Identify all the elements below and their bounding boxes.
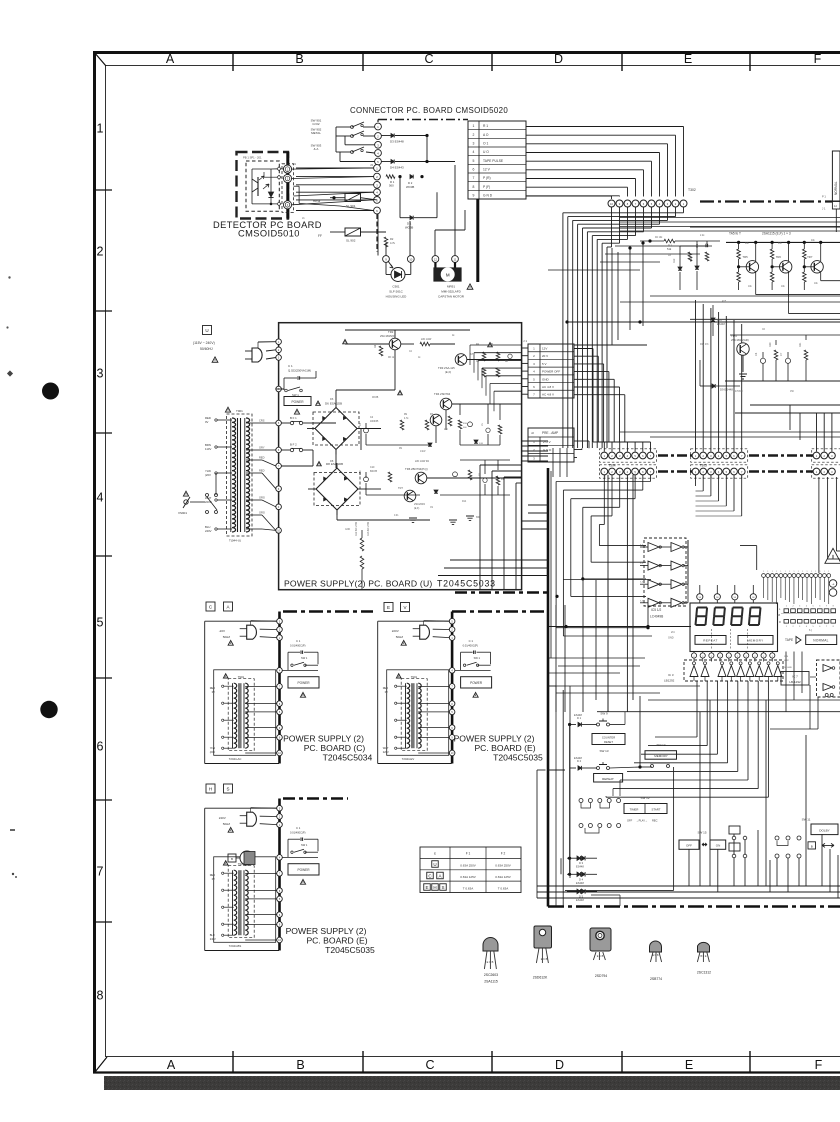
svg-text:REW: REW (313, 199, 320, 203)
svg-text:J2: J2 (531, 431, 534, 435)
svg-text:U: U (433, 862, 436, 867)
svg-text:220V: 220V (383, 750, 389, 754)
svg-text:D8: D8 (330, 459, 334, 463)
svg-text:GND: GND (345, 529, 350, 531)
svg-text:H: H (209, 787, 212, 792)
svg-text:SW 11: SW 11 (802, 818, 811, 822)
svg-text:CRS: CRS (259, 419, 265, 423)
svg-text:D 4: D 4 (579, 877, 584, 881)
svg-text:ES448: ES448 (574, 713, 582, 717)
svg-text:1000/35: 1000/35 (370, 421, 379, 423)
svg-text:A: A (166, 52, 175, 66)
svg-text:CMSOID5010: CMSOID5010 (238, 229, 300, 239)
svg-text:D6: D6 (330, 397, 334, 401)
svg-text:20 V: 20 V (542, 354, 548, 358)
svg-text:DOLBY: DOLBY (819, 829, 830, 833)
svg-text:LB1292: LB1292 (664, 679, 675, 683)
svg-text:RED: RED (383, 686, 389, 690)
svg-text:POWER: POWER (470, 681, 483, 685)
svg-text:REC: REC (652, 819, 658, 823)
svg-text:T2044-BS: T2044-BS (229, 944, 242, 948)
svg-text:C 1: C 1 (296, 826, 301, 830)
svg-text:1: 1 (789, 571, 790, 573)
svg-text:0.63A 250V: 0.63A 250V (460, 864, 476, 868)
svg-text:SW 12: SW 12 (640, 796, 649, 800)
svg-text:4.7k: 4.7k (390, 241, 396, 245)
svg-text:G N D: G N D (543, 448, 552, 452)
svg-text:T2044-EV: T2044-EV (402, 757, 415, 761)
svg-text:1: 1 (824, 571, 825, 573)
svg-text:CONNECTOR PC. BOARD CMSOID50: CONNECTOR PC. BOARD CMSOID5020 (350, 106, 508, 115)
svg-text:P (R): P (R) (483, 176, 491, 180)
svg-text:R21: R21 (799, 342, 802, 347)
svg-text:T 0.63A: T 0.63A (463, 886, 473, 890)
svg-text:& A: & A (314, 147, 319, 151)
svg-text:REPEAT: REPEAT (703, 639, 718, 643)
svg-text:START: START (652, 808, 661, 812)
svg-text:1: 1 (811, 571, 812, 573)
svg-text:B C E: B C E (701, 956, 707, 958)
svg-text:1: 1 (820, 571, 821, 573)
svg-text:E C B: E C B (653, 955, 659, 957)
svg-text:0V: 0V (212, 690, 215, 694)
svg-text:0V: 0V (212, 877, 215, 881)
svg-text:6: 6 (97, 740, 104, 754)
svg-text:S: S (441, 885, 444, 890)
svg-text:OFF: OFF (627, 819, 633, 823)
svg-text:D 5: D 5 (579, 894, 584, 898)
svg-text:T2045C5035: T2045C5035 (493, 753, 543, 763)
svg-text:TR5: TR5 (742, 255, 748, 259)
svg-text:0.63A 125V: 0.63A 125V (495, 875, 511, 879)
svg-text:T901: T901 (236, 409, 243, 413)
svg-text:0.01/400C(P): 0.01/400C(P) (290, 644, 306, 648)
svg-text:220 1/2W: 220 1/2W (421, 338, 432, 341)
svg-text:B: B (811, 844, 813, 848)
svg-text:12: 12 (434, 258, 438, 262)
svg-text:9: 9 (473, 194, 475, 198)
svg-text:T302: T302 (688, 188, 696, 192)
svg-text:TA5 fe T: TA5 fe T (729, 232, 741, 236)
svg-text:IC5 1/2: IC5 1/2 (651, 608, 662, 612)
svg-text:IC 7: IC 7 (792, 675, 798, 679)
svg-text:R6 1k: R6 1k (388, 357, 395, 359)
svg-text:PC. BOARD (E): PC. BOARD (E) (474, 743, 535, 753)
svg-text:F: F (814, 52, 822, 66)
svg-text:7: 7 (97, 865, 104, 879)
svg-text:0.63A 125V: 0.63A 125V (460, 875, 476, 879)
svg-text:E C B: E C B (487, 960, 494, 964)
svg-text:Q.022(250VAC(M): Q.022(250VAC(M) (288, 369, 311, 373)
svg-text:V: V (403, 605, 406, 610)
svg-text:→PLAY→: →PLAY→ (636, 819, 648, 823)
svg-text:METAL: METAL (311, 131, 321, 135)
svg-text:D6: D6 (325, 402, 329, 406)
svg-text:O 1: O 1 (483, 142, 488, 146)
svg-text:R2 10k: R2 10k (655, 237, 663, 239)
svg-text:1: 1 (807, 571, 808, 573)
svg-text:A7: A7 (470, 352, 474, 356)
svg-text:WO3B: WO3B (406, 185, 414, 189)
svg-text:SW 15: SW 15 (697, 831, 706, 835)
svg-text:51k: 51k (667, 247, 672, 251)
svg-text:VS901: VS901 (178, 511, 187, 515)
svg-text:1: 1 (793, 571, 794, 573)
svg-text:MEMORY: MEMORY (654, 754, 667, 758)
svg-text:A: A (438, 874, 441, 879)
svg-text:SLF-261C: SLF-261C (389, 290, 404, 294)
svg-text:(115V ~ 240V): (115V ~ 240V) (193, 341, 215, 345)
svg-text:C10: C10 (359, 470, 362, 475)
svg-text:560: 560 (389, 184, 394, 188)
svg-text:R2: R2 (390, 237, 394, 241)
svg-text:ES448: ES448 (576, 881, 584, 885)
svg-text:RED: RED (210, 873, 216, 877)
svg-text:B: B (296, 1058, 304, 1072)
svg-text:6: 6 (473, 168, 475, 172)
svg-text:OFF: OFF (686, 844, 692, 848)
svg-text:AC 4.8 V: AC 4.8 V (542, 385, 554, 389)
svg-text:50HZ: 50HZ (396, 635, 404, 639)
svg-text:S: S (226, 787, 229, 792)
svg-text:REPEAT: REPEAT (602, 777, 614, 781)
svg-text:50HZ: 50HZ (223, 635, 231, 639)
svg-text:D4 ES443: D4 ES443 (390, 166, 404, 170)
svg-text:ORG: ORG (259, 496, 265, 500)
svg-text:4: 4 (473, 150, 475, 154)
svg-text:800/35: 800/35 (370, 471, 378, 473)
svg-text:(E,F): (E,F) (414, 507, 420, 510)
svg-text:TR7: TR7 (807, 255, 813, 259)
svg-text:J 1: J 1 (523, 339, 527, 343)
svg-text:5 V: 5 V (542, 362, 547, 366)
svg-text:R 1: R 1 (483, 124, 488, 128)
svg-text:POWER: POWER (297, 681, 310, 685)
svg-text:SW 14: SW 14 (656, 743, 665, 747)
svg-text:TR6 2BO794(P.Q): TR6 2BO794(P.Q) (405, 467, 428, 471)
svg-text:TAPE PULSE: TAPE PULSE (483, 159, 504, 163)
svg-text:A: A (167, 1058, 176, 1072)
svg-text:C4: C4 (754, 352, 758, 356)
svg-text:-20V: -20V (219, 629, 225, 633)
svg-text:E: E (434, 852, 436, 856)
svg-text:MMI-552LAFD: MMI-552LAFD (441, 290, 461, 294)
svg-text:FF: FF (318, 234, 322, 238)
svg-text:C10: C10 (370, 466, 375, 469)
svg-text:B: B (295, 52, 303, 66)
svg-text:5: 5 (473, 159, 475, 163)
svg-text:T2044-AC: T2044-AC (229, 757, 242, 761)
svg-text:240V: 240V (205, 529, 212, 533)
svg-text:240V: 240V (210, 937, 216, 941)
svg-text:GND: GND (542, 377, 550, 381)
svg-text:T2045C5035: T2045C5035 (325, 945, 375, 955)
svg-text:MEMORY: MEMORY (747, 639, 763, 643)
svg-text:TR7: TR7 (398, 486, 403, 490)
svg-text:TR4 2SD794: TR4 2SD794 (434, 392, 451, 396)
svg-text:C: C (425, 1058, 434, 1072)
svg-text:+B: +B (777, 614, 780, 617)
svg-text:E: E (685, 1058, 693, 1072)
svg-text:C7: C7 (779, 352, 783, 356)
svg-text:1: 1 (97, 122, 104, 136)
svg-text:NORMAL: NORMAL (813, 639, 828, 643)
svg-text:1: 1 (828, 571, 829, 573)
svg-text:POWER OFF: POWER OFF (542, 370, 560, 374)
svg-text:2/4: 2/4 (671, 631, 675, 634)
svg-text:R17 47k: R17 47k (700, 344, 709, 346)
svg-text:TIMER: TIMER (630, 808, 639, 812)
svg-text:P (F): P (F) (483, 185, 490, 189)
svg-text:R15: R15 (722, 301, 727, 303)
svg-text:2SD794: 2SD794 (595, 974, 607, 978)
svg-text:1: 1 (763, 571, 764, 573)
svg-text:1: 1 (815, 571, 816, 573)
svg-text:110V: 110V (205, 447, 211, 451)
svg-text:D3 ES448: D3 ES448 (390, 140, 404, 144)
svg-text:ORG: ORG (259, 511, 265, 515)
svg-text:1: 1 (798, 571, 799, 573)
svg-text:(20V: (20V (210, 750, 216, 754)
svg-text:T(044-U): T(044-U) (229, 539, 241, 543)
svg-text:SL 901: SL 901 (346, 204, 356, 208)
svg-text:G N D: G N D (483, 194, 493, 198)
svg-text:50HZ: 50HZ (223, 822, 231, 826)
svg-text:12V: 12V (542, 346, 547, 350)
svg-text:M: M (446, 273, 450, 278)
svg-text:F: F (815, 1058, 823, 1072)
svg-text:10 GND: 10 GND (784, 667, 792, 669)
svg-text:POWER: POWER (297, 868, 310, 872)
svg-text:E: E (425, 885, 428, 890)
svg-text:F 2: F 2 (501, 852, 506, 856)
svg-text:0.01/400C(P): 0.01/400C(P) (463, 644, 479, 648)
svg-text:U: U (205, 328, 208, 333)
svg-text:POWER SUPPLY(2) PC. BOARD (U: POWER SUPPLY(2) PC. BOARD (U) (284, 579, 432, 589)
svg-text:COUNTER: COUNTER (602, 736, 615, 740)
svg-text:T 0.63A: T 0.63A (498, 886, 508, 890)
svg-text:(E,F): (E,F) (445, 370, 451, 374)
svg-text:8: 8 (473, 185, 475, 189)
svg-text:CrO2: CrO2 (312, 122, 319, 126)
svg-text:0.01/400C(P): 0.01/400C(P) (290, 831, 306, 835)
svg-text:RED: RED (210, 686, 216, 690)
svg-text:YLW: YLW (210, 746, 216, 750)
svg-text:8: 8 (97, 989, 104, 1003)
svg-text:(20V: (20V (205, 473, 211, 477)
svg-text:MR91: MR91 (447, 285, 455, 289)
svg-text:3: 3 (473, 142, 475, 146)
svg-text:GND: GND (668, 637, 674, 640)
svg-text:ON: ON (716, 844, 721, 848)
svg-text:HOUSING LED: HOUSING LED (386, 295, 408, 299)
svg-text:D16: D16 (717, 318, 722, 322)
svg-text:R12 80 1/4W: R12 80 1/4W (355, 521, 358, 536)
svg-text:A O: A O (483, 133, 489, 137)
svg-text:T305: T305 (700, 464, 707, 468)
svg-text:RESET: RESET (604, 740, 613, 744)
svg-text:1: 1 (767, 571, 768, 573)
svg-text:E: E (387, 605, 390, 610)
svg-text:SW 1: SW 1 (301, 843, 308, 847)
svg-text:SW 13: SW 13 (599, 749, 608, 753)
svg-text:1/2W: 1/2W (420, 451, 426, 453)
svg-text:220V: 220V (392, 629, 399, 633)
svg-text:GRY: GRY (259, 446, 265, 450)
svg-text:J 1: J 1 (822, 207, 826, 211)
svg-text:D 3: D 3 (579, 861, 584, 865)
svg-text:2SC2603: 2SC2603 (484, 973, 498, 977)
svg-text:2SA1115 (E,F) 1 × 3: 2SA1115 (E,F) 1 × 3 (762, 232, 791, 236)
svg-text:0.63A 250V: 0.63A 250V (495, 864, 511, 868)
svg-text:2 O V: 2 O V (543, 440, 551, 444)
svg-text:POWER SUPPLY (2): POWER SUPPLY (2) (286, 926, 367, 936)
svg-text:2SC1815(F): 2SC1815(F) (380, 334, 395, 338)
svg-text:3: 3 (97, 367, 104, 381)
svg-text:1: 1 (780, 571, 781, 573)
svg-text:4: 4 (97, 491, 104, 505)
svg-text:T2045C5034: T2045C5034 (323, 753, 373, 763)
svg-text:0V: 0V (385, 690, 388, 694)
svg-text:1: 1 (785, 571, 786, 573)
svg-text:220 1/2W R2: 220 1/2W R2 (415, 460, 430, 463)
svg-text:0V: 0V (205, 420, 209, 424)
svg-text:LB-1292: LB-1292 (789, 680, 801, 684)
svg-text:CAPSTAN MOTOR: CAPSTAN MOTOR (438, 295, 465, 299)
svg-text:D12: D12 (673, 258, 676, 263)
svg-text:TAPE: TAPE (785, 638, 793, 642)
svg-text:R 1: R 1 (668, 244, 673, 248)
svg-text:240V: 240V (219, 816, 226, 820)
svg-text:470/6.3: 470/6.3 (735, 391, 743, 393)
svg-text:2SB774: 2SB774 (650, 977, 662, 981)
svg-text:H: H (433, 885, 436, 890)
svg-text:B: B (231, 857, 233, 861)
svg-text:E C B: E C B (597, 955, 604, 958)
svg-text:R20: R20 (769, 342, 772, 347)
svg-text:POWER SUPPLY (2): POWER SUPPLY (2) (283, 734, 364, 744)
svg-text:IC 3: IC 3 (668, 673, 674, 677)
svg-text:TR6: TR6 (776, 255, 782, 259)
svg-text:2SC1815(GR): 2SC1815(GR) (731, 338, 749, 342)
svg-text:WHT: WHT (383, 746, 389, 750)
svg-text:2SC2603: 2SC2603 (414, 502, 425, 506)
svg-text:SW 9: SW 9 (600, 712, 608, 716)
svg-text:R14: R14 (462, 501, 467, 503)
svg-text:C901: C901 (392, 285, 400, 289)
svg-text:WO3B: WO3B (405, 225, 413, 229)
svg-text:SL 902: SL 902 (346, 239, 356, 243)
svg-text:12 V: 12 V (483, 168, 491, 172)
svg-text:F 1: F 1 (466, 852, 471, 856)
svg-text:SW 1: SW 1 (474, 656, 481, 660)
svg-text:J3: J3 (370, 163, 373, 167)
svg-text:ES448: ES448 (576, 865, 584, 869)
svg-text:E C B: E C B (541, 958, 548, 961)
svg-text:2SD612K: 2SD612K (533, 976, 548, 980)
svg-text:11: 11 (454, 258, 457, 262)
svg-text:B F 1: B F 1 (290, 416, 297, 420)
svg-text:10: 10 (409, 258, 413, 262)
svg-text:D: D (555, 1058, 564, 1072)
svg-text:NORMAL: NORMAL (834, 181, 838, 195)
svg-text:ES448: ES448 (576, 898, 584, 902)
svg-text:7: 7 (473, 176, 475, 180)
svg-text:P 1: P 1 (822, 195, 826, 199)
svg-text:RED: RED (259, 456, 265, 460)
svg-text:R: R (779, 621, 781, 624)
svg-text:1: 1 (776, 571, 777, 573)
svg-text:2: 2 (473, 133, 475, 137)
svg-text:LC4049B: LC4049B (650, 615, 663, 619)
svg-text:U O: U O (483, 150, 489, 154)
svg-text:POWER: POWER (291, 400, 304, 404)
svg-text:D: D (554, 52, 563, 66)
svg-text:C 1: C 1 (469, 639, 474, 643)
svg-text:1: 1 (802, 571, 803, 573)
svg-text:6 ): 6 ) (809, 629, 812, 632)
svg-text:PC. BOARD (E): PC. BOARD (E) (306, 936, 367, 946)
svg-text:2SA1115: 2SA1115 (484, 980, 498, 984)
svg-text:1: 1 (772, 571, 773, 573)
svg-text:0.01: 0.01 (394, 515, 399, 517)
svg-text:PRE - AMP: PRE - AMP (542, 431, 558, 435)
svg-text:2: 2 (97, 245, 104, 259)
svg-text:E: E (684, 52, 692, 66)
svg-text:W03B: W03B (372, 397, 379, 399)
svg-text:50/60HJ: 50/60HJ (200, 347, 213, 351)
svg-text:T304: T304 (608, 464, 615, 468)
svg-text:ES448: ES448 (574, 756, 582, 760)
svg-text:BLU: BLU (210, 933, 215, 937)
svg-text:2SC1312: 2SC1312 (697, 971, 711, 975)
svg-text:PB 1 SP1 - 201: PB 1 SP1 - 201 (243, 156, 262, 160)
svg-text:POWER SUPPLY (2): POWER SUPPLY (2) (454, 734, 535, 744)
svg-text:B F 2: B F 2 (290, 443, 297, 447)
svg-text:D9 ES448: D9 ES448 (720, 388, 733, 392)
svg-text:5: 5 (97, 616, 104, 630)
svg-text:SW2: SW2 (784, 660, 790, 662)
svg-text:C 1: C 1 (296, 639, 301, 643)
svg-text:C: C (424, 52, 433, 66)
svg-text:ES448: ES448 (717, 322, 725, 326)
svg-text:A: A (226, 605, 229, 610)
svg-text:C 1: C 1 (288, 364, 293, 368)
svg-text:AC 4.8 V: AC 4.8 V (542, 393, 554, 397)
svg-text:PC. BOARD (C): PC. BOARD (C) (304, 743, 366, 753)
svg-text:SW 1: SW 1 (301, 656, 308, 660)
svg-text:1: 1 (473, 124, 475, 128)
svg-text:T2045C5033: T2045C5033 (437, 579, 496, 589)
svg-text:R13 80 1/4W: R13 80 1/4W (367, 521, 370, 536)
svg-text:RED: RED (259, 469, 265, 473)
